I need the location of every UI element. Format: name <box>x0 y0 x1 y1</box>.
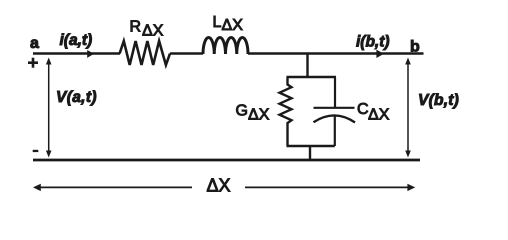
svg-text:ΔX: ΔX <box>142 23 164 40</box>
wire shunt stem to bottom wire <box>309 146 311 161</box>
dimension arrow delta-x, right half with right arrowhead <box>245 184 415 191</box>
current arrowhead i(a,t) on wire <box>87 50 94 58</box>
svg-text:L: L <box>213 14 222 31</box>
wire shunt stem from top wire <box>306 54 308 79</box>
inductor L (series, 4 humps) <box>203 37 248 54</box>
svg-text:R: R <box>130 19 142 36</box>
value label C deltaX <box>357 101 390 124</box>
wire between resistor and inductor <box>170 52 203 54</box>
svg-text:V(a,t): V(a,t) <box>56 89 97 106</box>
wire top-right segment (inductor to node b) <box>248 52 424 54</box>
minus terminal mark <box>33 150 39 152</box>
svg-text:ΔX: ΔX <box>368 107 390 124</box>
voltage arrow V(a,t) (double-headed) <box>46 58 52 158</box>
value label R deltaX <box>130 19 164 40</box>
conductance G (shunt, vertical zigzag) <box>280 77 292 146</box>
svg-text:G: G <box>236 103 248 120</box>
current arrowhead i(b,t) on wire <box>376 50 383 58</box>
svg-text:ΔX: ΔX <box>248 107 270 124</box>
wire bottom (return conductor) <box>33 159 420 162</box>
voltage arrow V(b,t) (double-headed) <box>405 58 411 158</box>
plus terminal mark <box>28 58 38 68</box>
wire top-left segment (node a to resistor) <box>33 52 120 54</box>
svg-text:ΔX: ΔX <box>222 17 244 34</box>
svg-text:i(b,t): i(b,t) <box>356 34 390 51</box>
resistor R (series, zigzag) <box>120 41 170 65</box>
svg-text:a: a <box>30 35 39 52</box>
svg-text:V(b,t): V(b,t) <box>418 92 459 109</box>
svg-text:C: C <box>357 101 369 118</box>
svg-text:ΔX: ΔX <box>207 176 231 196</box>
dimension arrow delta-x, left half with left arrowhead <box>33 184 192 191</box>
svg-text:i(a,t): i(a,t) <box>60 32 93 49</box>
wire shunt top bar <box>287 76 337 78</box>
svg-text:b: b <box>410 39 420 56</box>
value label L deltaX <box>213 14 244 34</box>
wire shunt bottom bar <box>287 145 335 147</box>
value label G deltaX <box>236 103 270 124</box>
capacitor C (shunt, curved-plate) <box>314 77 356 146</box>
